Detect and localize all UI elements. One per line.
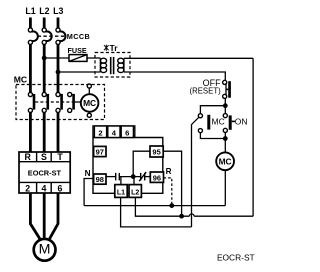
svg-text:L1: L1 <box>25 6 35 16</box>
contact MC auxiliary self holding <box>198 114 210 133</box>
svg-text:FUSE: FUSE <box>68 46 87 55</box>
pin 4 box on relay <box>108 126 120 138</box>
svg-text:L3: L3 <box>53 6 63 16</box>
coil MC contactor coil <box>81 84 99 117</box>
svg-text:R: R <box>166 167 172 176</box>
pin 98 terminal box <box>94 174 106 184</box>
wire L1 MC to EOCR box <box>29 112 32 152</box>
wire L3 EOCR to motor <box>50 193 58 239</box>
wire linkage to coil <box>75 101 80 103</box>
wire L2 MCCB to MC contact <box>43 44 46 92</box>
breaker MCCB pole 1 <box>28 28 38 45</box>
contact NO 98 side <box>116 173 120 181</box>
svg-text:MC: MC <box>83 98 96 108</box>
pin 6 box on relay <box>121 126 133 138</box>
wire fuse to transformer primary <box>87 57 100 59</box>
node fuse tap junction on L2 <box>42 56 47 61</box>
motor M <box>34 239 56 261</box>
node R reset junction <box>169 203 174 208</box>
wire L1 EOCR to motor <box>30 193 39 239</box>
wire 98 to contact a <box>106 176 115 178</box>
node junction above coil <box>223 136 228 141</box>
svg-text:S: S <box>41 152 47 162</box>
svg-text:Tr: Tr <box>110 43 119 53</box>
svg-text:N: N <box>85 169 91 178</box>
svg-text:6: 6 <box>125 128 129 137</box>
button OFF NC pushbutton <box>223 80 231 98</box>
wire return rail to right rail <box>194 215 253 217</box>
svg-text:ON: ON <box>235 117 248 127</box>
wire hop over L1 riser <box>189 214 194 216</box>
wire contact a to node <box>119 176 140 178</box>
wire junction to coil <box>224 139 226 153</box>
wire coil bottom to N rail <box>224 170 226 206</box>
contactor MC main contact pole 2 <box>42 92 48 112</box>
svg-text:T: T <box>57 152 63 162</box>
node 95 rail junction <box>179 214 184 219</box>
wire MC aux bottom to junction <box>200 133 225 139</box>
svg-text:(RESET): (RESET) <box>189 87 221 96</box>
transformer Tr secondary winding <box>118 58 124 72</box>
wire L1 incoming <box>29 18 32 29</box>
wire L1 riser to MC aux contact <box>192 117 199 227</box>
wire L3 MCCB to MC contact <box>57 44 60 92</box>
breaker MCCB pole 3 <box>56 28 66 45</box>
pin 96 terminal box <box>150 172 163 182</box>
wire L2 EOCR to motor <box>43 193 46 238</box>
svg-text:98: 98 <box>96 175 104 184</box>
svg-text:MC: MC <box>14 75 27 85</box>
transformer Tr core <box>111 57 114 74</box>
wire L1 terminal stub up <box>120 177 122 185</box>
svg-text:4: 4 <box>41 183 46 193</box>
wire L1 terminal down and right <box>121 197 192 227</box>
wire N from 98 down <box>84 179 94 206</box>
wire common node up to 95 <box>133 151 150 176</box>
contactor MC main contact pole 1 <box>28 92 34 112</box>
wire 95 to lower rail <box>163 151 181 216</box>
wire secondary bottom to OFF button <box>124 72 225 80</box>
coil MC control coil <box>216 152 234 170</box>
transformer Tr primary winding <box>100 58 106 72</box>
transformer Tr winding outer wires <box>99 58 101 72</box>
wire contact b to 96 <box>145 176 151 178</box>
svg-text:MC: MC <box>212 117 225 127</box>
relay EOCR top edge under terminals <box>93 137 135 139</box>
pin 95 terminal box <box>150 146 163 157</box>
svg-text:L2: L2 <box>131 190 139 197</box>
svg-text:6: 6 <box>58 183 63 193</box>
pin 2 box on relay <box>94 126 106 138</box>
EOCR-ST current transformer box <box>19 152 70 193</box>
pin L2 terminal box <box>129 185 141 198</box>
transformer Tr label mark <box>104 45 109 51</box>
wire L1 MCCB to MC contact <box>29 44 32 92</box>
wire L3 incoming <box>57 18 60 29</box>
svg-text:L1: L1 <box>117 190 125 197</box>
contactor MC linkage dashed <box>35 101 72 103</box>
wire OFF to junction <box>224 98 226 105</box>
wire N rail to MC coil bottom <box>84 205 225 207</box>
wire L2 terminal stub up <box>133 177 135 185</box>
node relay common junction <box>131 174 136 179</box>
button ON NO pushbutton <box>223 108 235 139</box>
svg-text:MC: MC <box>219 156 232 166</box>
svg-text:95: 95 <box>152 148 160 157</box>
wire L2 MC to EOCR box <box>43 112 46 152</box>
pin L1 terminal box <box>115 185 127 198</box>
svg-text:EOCR-ST: EOCR-ST <box>217 253 255 263</box>
wire right rail down <box>252 58 254 216</box>
contactor MC dashed box <box>16 85 105 120</box>
wire junction to MC aux branch <box>200 106 225 114</box>
contactor MC main contact pole 3 <box>56 92 62 112</box>
wire L2 incoming <box>43 18 46 29</box>
connector top strip lines <box>107 126 122 138</box>
wire L3 MC to EOCR box <box>57 112 60 152</box>
contact NC 96 side with slash <box>139 172 146 181</box>
wire L2 to fuse <box>44 57 69 59</box>
svg-text:96: 96 <box>153 173 161 182</box>
svg-text:M: M <box>39 242 51 258</box>
svg-text:2: 2 <box>25 183 30 193</box>
wire R dashed reset link <box>164 178 172 206</box>
contactor MC auxiliary contact <box>68 92 74 112</box>
pin 97 terminal box <box>94 146 106 156</box>
svg-text:97: 97 <box>96 148 104 157</box>
node junction below OFF <box>223 103 228 108</box>
svg-text:L2: L2 <box>39 6 49 16</box>
svg-text:R: R <box>25 152 32 162</box>
fuse symbol <box>69 55 87 62</box>
breaker MCCB pole 2 <box>42 28 52 45</box>
svg-text:EOCR-ST: EOCR-ST <box>28 168 62 177</box>
wire L3 to transformer primary bottom <box>58 71 100 73</box>
relay EOCR unit box outline <box>93 126 163 193</box>
node transformer tap junction on L3 <box>56 70 61 75</box>
wire L2 terminal down to return rail <box>135 197 189 216</box>
svg-text:MCCB: MCCB <box>67 32 90 41</box>
transformer Tr dashed box <box>95 53 130 78</box>
svg-text:2: 2 <box>98 128 102 137</box>
breaker MCCB linkage <box>38 35 65 37</box>
wire secondary top to right rail <box>124 57 253 59</box>
